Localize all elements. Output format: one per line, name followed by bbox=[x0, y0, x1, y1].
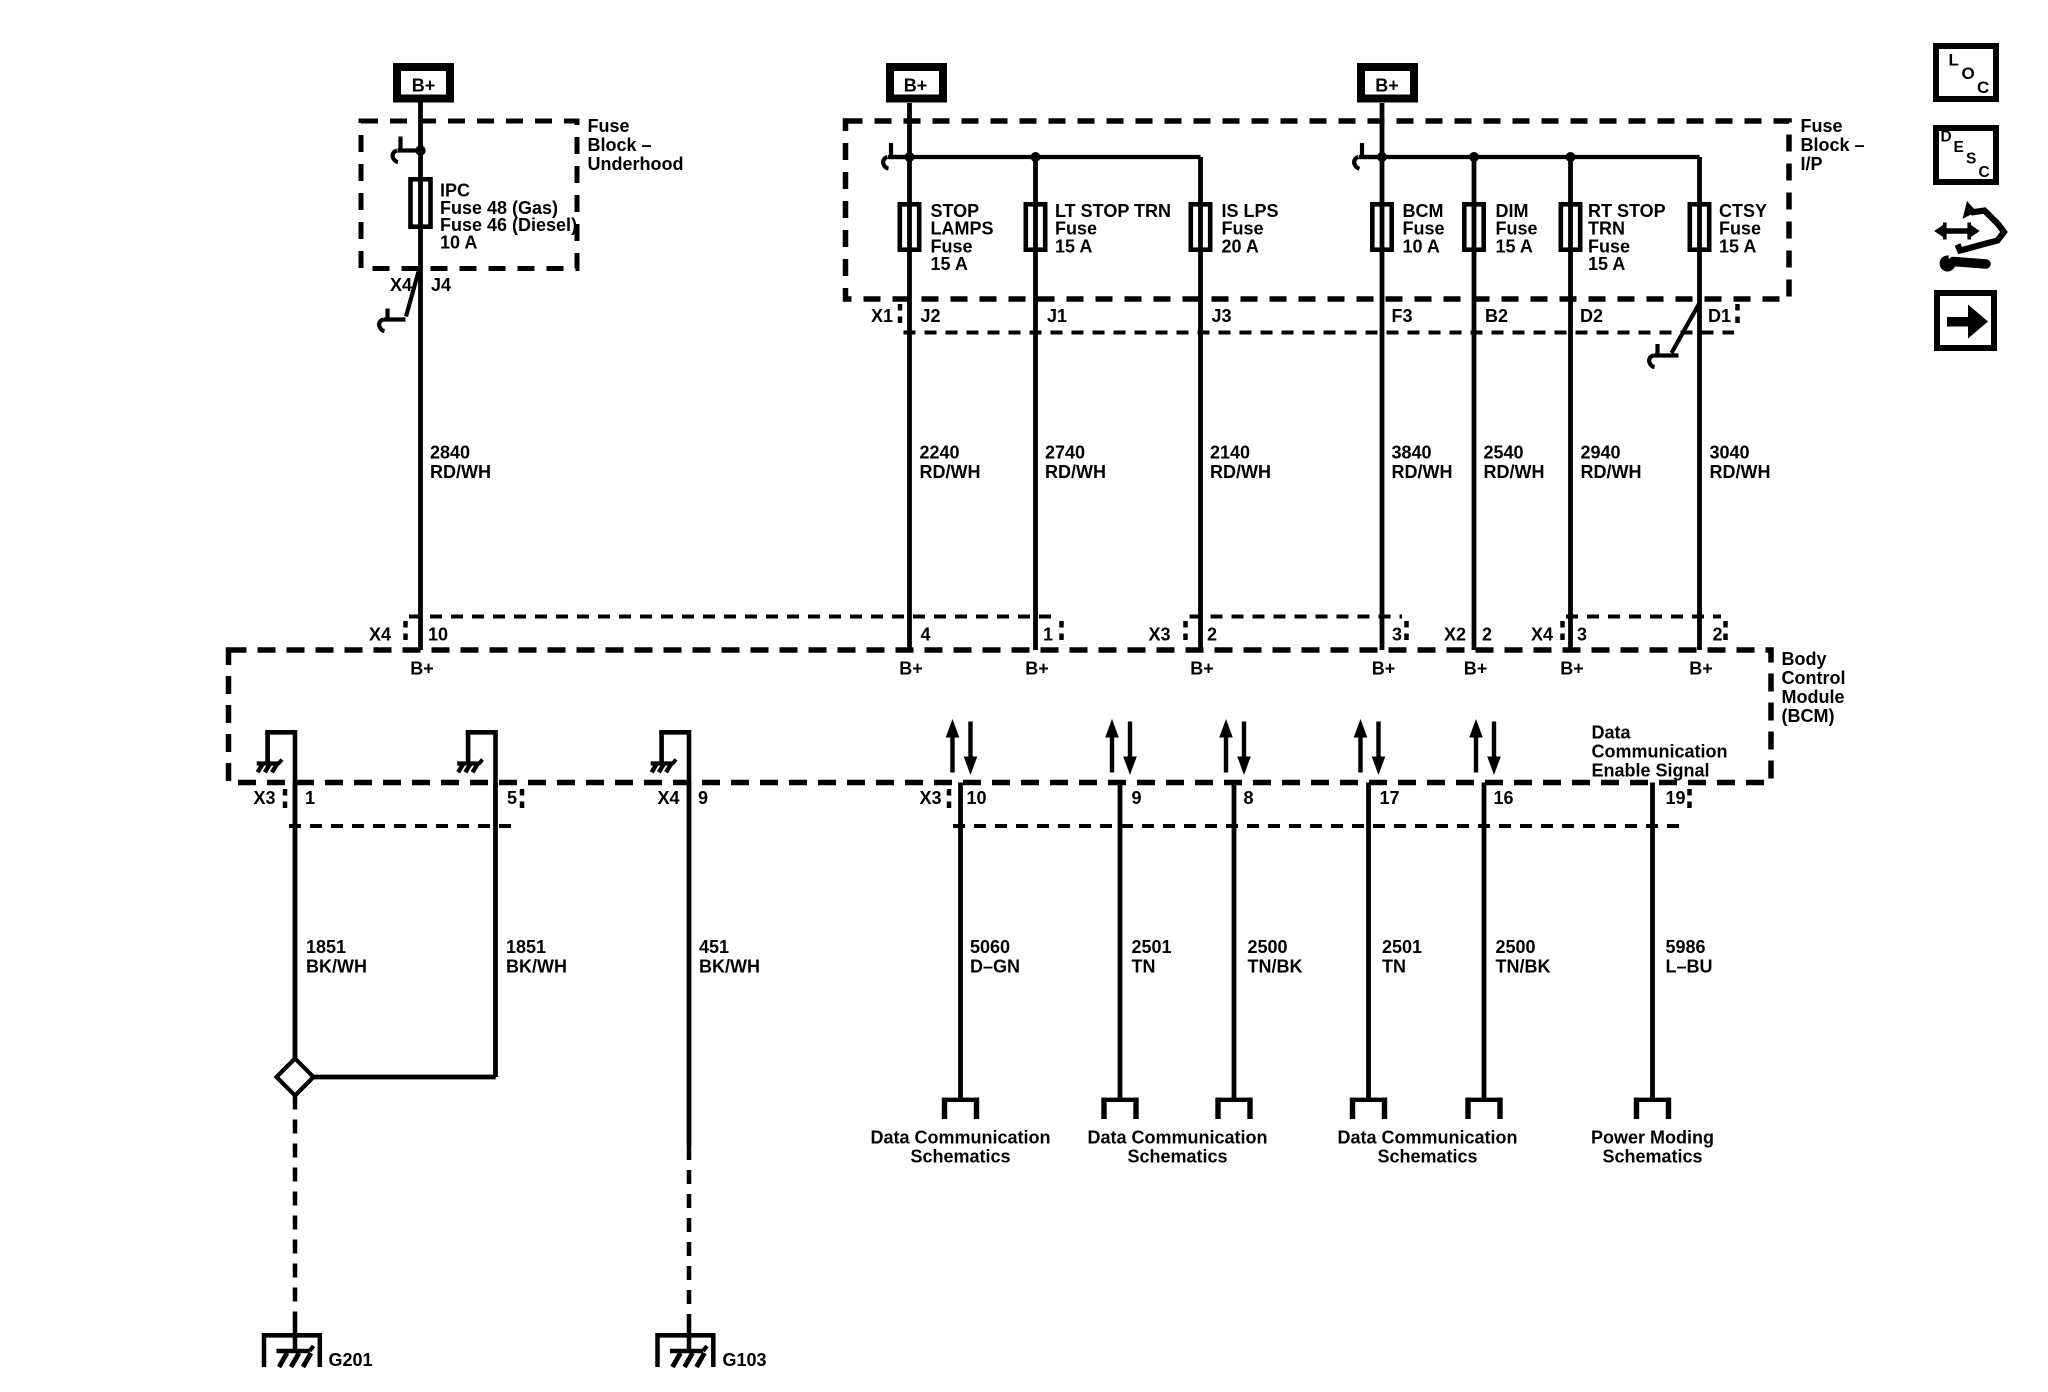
wire 2140 through IS LPS fuse bbox=[1198, 157, 1203, 650]
wire 1851 pin 5 bbox=[493, 783, 498, 1078]
svg-text:X3: X3 bbox=[254, 788, 276, 808]
svg-text:2740: 2740 bbox=[1045, 443, 1085, 463]
svg-text:8: 8 bbox=[1244, 788, 1254, 808]
svg-text:10 A: 10 A bbox=[440, 232, 477, 252]
junction dot at 2240/bus bbox=[905, 152, 915, 162]
wire label 2840 RD/WH bbox=[430, 443, 491, 483]
wire label 2140 RD/WH bbox=[1210, 443, 1271, 483]
svg-text:B+: B+ bbox=[412, 76, 436, 96]
off-page connector for 5986 bbox=[1634, 1098, 1671, 1119]
svg-text:3040: 3040 bbox=[1710, 443, 1750, 463]
dashed ground lead from splice to G201 bbox=[293, 1096, 298, 1325]
svg-text:16: 16 bbox=[1494, 788, 1514, 808]
wire 2240 from B+ through STOP LAMPS fuse bbox=[907, 103, 912, 650]
svg-text:4: 4 bbox=[921, 625, 931, 645]
wire 2500 pin 16 bbox=[1482, 783, 1487, 1099]
svg-text:2501: 2501 bbox=[1382, 937, 1422, 957]
svg-text:Body: Body bbox=[1782, 649, 1827, 669]
svg-text:Data: Data bbox=[1592, 723, 1632, 743]
svg-text:D2: D2 bbox=[1580, 306, 1603, 326]
wire 5986 pin 19 bbox=[1650, 783, 1655, 1099]
junction dot at 2740/bus bbox=[1031, 152, 1041, 162]
svg-text:BK/WH: BK/WH bbox=[506, 957, 567, 977]
svg-text:RD/WH: RD/WH bbox=[1045, 462, 1106, 482]
svg-text:RD/WH: RD/WH bbox=[1484, 462, 1545, 482]
label fuse CTSY bbox=[1719, 201, 1767, 257]
svg-text:J4: J4 bbox=[431, 275, 451, 295]
wire label 5060 D-GN bbox=[970, 937, 1020, 977]
svg-text:10: 10 bbox=[967, 788, 987, 808]
wire label 3040 RD/WH bbox=[1710, 443, 1771, 483]
svg-text:RD/WH: RD/WH bbox=[430, 462, 491, 482]
svg-text:5986: 5986 bbox=[1666, 937, 1706, 957]
wire label 1851 BK/WH left bbox=[306, 937, 367, 977]
label Power Moding Schematics bbox=[1591, 1128, 1714, 1167]
wire label 2740 RD/WH bbox=[1045, 443, 1106, 483]
wire 2840 from B+ through IPC fuse to BCM X4-10 bbox=[418, 102, 423, 650]
wire label 2540 RD/WH bbox=[1484, 443, 1545, 483]
svg-text:2: 2 bbox=[1207, 625, 1217, 645]
svg-text:L: L bbox=[1949, 51, 1959, 70]
svg-text:Fuse: Fuse bbox=[588, 116, 630, 136]
power symbol B+ feed 2 (I/P left) bbox=[890, 67, 943, 99]
svg-text:B+: B+ bbox=[1025, 659, 1049, 679]
svg-text:20 A: 20 A bbox=[1222, 236, 1259, 256]
svg-text:15 A: 15 A bbox=[1588, 254, 1625, 274]
label Data Communication Schematics 1 bbox=[870, 1128, 1050, 1167]
svg-text:Block –: Block – bbox=[1801, 135, 1865, 155]
svg-text:D1: D1 bbox=[1708, 306, 1731, 326]
svg-text:RD/WH: RD/WH bbox=[920, 462, 981, 482]
wire 2540 through DIM fuse bbox=[1472, 157, 1477, 650]
svg-text:Power Moding: Power Moding bbox=[1591, 1128, 1714, 1148]
svg-text:TN: TN bbox=[1132, 957, 1156, 977]
svg-text:1851: 1851 bbox=[506, 937, 546, 957]
svg-text:19: 19 bbox=[1666, 788, 1686, 808]
svg-text:Schematics: Schematics bbox=[1377, 1147, 1477, 1167]
svg-text:3: 3 bbox=[1577, 625, 1587, 645]
svg-text:TN/BK: TN/BK bbox=[1496, 957, 1551, 977]
svg-text:RD/WH: RD/WH bbox=[1392, 462, 1453, 482]
BCM top connector X4 strip dashed line bbox=[409, 615, 1057, 619]
label fuse IPC bbox=[440, 181, 577, 253]
wire 451 pin X4-9 bbox=[687, 783, 692, 1147]
svg-text:2501: 2501 bbox=[1132, 937, 1172, 957]
data signal direction arrows pair 3 bbox=[1219, 719, 1251, 775]
svg-text:C: C bbox=[1979, 164, 1990, 181]
connector X4/J4 clip symbol bbox=[406, 272, 419, 317]
BCM bottom connector bracket mark x=949 bbox=[947, 789, 952, 813]
svg-text:D: D bbox=[1941, 129, 1952, 146]
BCM bottom connector bracket mark x=522 bbox=[520, 789, 525, 813]
label Fuse Block Underhood bbox=[588, 116, 684, 174]
off-page connector for 2501 pin 9 bbox=[1102, 1098, 1139, 1119]
svg-text:15 A: 15 A bbox=[1055, 236, 1092, 256]
wire 3040 through CTSY fuse bbox=[1697, 157, 1702, 650]
fuse IPC 10A (underhood) bbox=[411, 179, 431, 226]
label Data Communication Schematics 3 bbox=[1337, 1128, 1517, 1167]
off-page connector for 2500 pin 8 bbox=[1216, 1098, 1253, 1119]
svg-text:2540: 2540 bbox=[1484, 443, 1524, 463]
power symbol B+ feed 1 (underhood) bbox=[397, 67, 450, 99]
label fuse STOP LAMPS bbox=[931, 201, 994, 274]
wire label 3840 RD/WH bbox=[1392, 443, 1453, 483]
svg-text:B+: B+ bbox=[1689, 659, 1713, 679]
svg-text:B+: B+ bbox=[1375, 76, 1399, 96]
svg-text:X4: X4 bbox=[390, 275, 412, 295]
svg-text:2500: 2500 bbox=[1248, 937, 1288, 957]
BCM internal ground symbol 3 bbox=[651, 730, 690, 784]
label fuse BCM bbox=[1403, 201, 1445, 257]
data signal direction arrows pair 1 bbox=[946, 719, 978, 775]
data signal direction arrows pair 4 bbox=[1354, 719, 1386, 775]
wire 2940 through RT STOP TRN fuse bbox=[1568, 157, 1573, 650]
svg-text:Communication: Communication bbox=[1592, 742, 1728, 762]
svg-text:2240: 2240 bbox=[920, 443, 960, 463]
svg-text:C: C bbox=[1977, 78, 1989, 97]
svg-text:Module: Module bbox=[1782, 687, 1845, 707]
label fuse DIM bbox=[1496, 201, 1538, 257]
wire label 1851 BK/WH right bbox=[506, 937, 567, 977]
fuse DIM 15A bbox=[1464, 204, 1483, 249]
svg-text:Schematics: Schematics bbox=[910, 1147, 1010, 1167]
svg-text:X1: X1 bbox=[871, 306, 893, 326]
svg-text:Schematics: Schematics bbox=[1602, 1147, 1702, 1167]
dashed ground lead from 451 to G103 bbox=[687, 1146, 692, 1324]
wire 3840 from B+ through BCM fuse bbox=[1380, 103, 1385, 650]
svg-text:B+: B+ bbox=[1464, 659, 1488, 679]
icon forward arrow box bbox=[1937, 293, 1994, 348]
junction dot at 2940/bus bbox=[1566, 152, 1576, 162]
BCM bottom connector X3-right strip dashed line bbox=[953, 824, 1687, 828]
svg-text:3: 3 bbox=[1392, 625, 1402, 645]
fuse RT STOP TRN 15A bbox=[1561, 204, 1580, 249]
svg-text:1: 1 bbox=[305, 788, 315, 808]
svg-text:Data Communication: Data Communication bbox=[870, 1128, 1050, 1148]
svg-text:X2: X2 bbox=[1444, 625, 1466, 645]
svg-text:15 A: 15 A bbox=[1719, 236, 1756, 256]
fuse STOP LAMPS 15A bbox=[900, 204, 919, 249]
svg-text:Schematics: Schematics bbox=[1127, 1147, 1227, 1167]
label fuse IS LPS bbox=[1222, 201, 1279, 257]
wire 1851 pin X3-1 bbox=[293, 783, 298, 1059]
wire label 451 BK/WH bbox=[699, 937, 760, 977]
off-page connector for 5060 bbox=[942, 1098, 979, 1119]
svg-text:15 A: 15 A bbox=[1496, 236, 1533, 256]
label Data Communication Schematics 2 bbox=[1087, 1128, 1267, 1167]
bus wire in I/P fuse block left group bbox=[889, 155, 1201, 159]
svg-text:RD/WH: RD/WH bbox=[1710, 462, 1771, 482]
BCM top connector bracket mark x=1185.5 bbox=[1183, 621, 1188, 645]
splice diamond S-point bbox=[277, 1059, 314, 1096]
ground G201 bbox=[262, 1333, 322, 1367]
svg-text:2140: 2140 bbox=[1210, 443, 1250, 463]
wire label 5986 L-BU bbox=[1666, 937, 1713, 977]
svg-text:5: 5 bbox=[507, 788, 517, 808]
svg-text:TN: TN bbox=[1382, 957, 1406, 977]
svg-text:X3: X3 bbox=[920, 788, 942, 808]
svg-text:2940: 2940 bbox=[1581, 443, 1621, 463]
svg-text:B+: B+ bbox=[1372, 659, 1396, 679]
svg-text:2: 2 bbox=[1482, 625, 1492, 645]
wire 1851 jumper to splice bbox=[314, 1075, 496, 1080]
label Body Control Module (BCM) bbox=[1782, 649, 1846, 726]
svg-text:G103: G103 bbox=[723, 1350, 767, 1370]
svg-text:10 A: 10 A bbox=[1403, 236, 1440, 256]
label Data Communication Enable Signal bbox=[1592, 723, 1728, 781]
svg-text:B2: B2 bbox=[1485, 306, 1508, 326]
svg-text:J1: J1 bbox=[1047, 306, 1067, 326]
connector D1 end bracket mark bbox=[1735, 304, 1740, 328]
svg-text:J3: J3 bbox=[1212, 306, 1232, 326]
BCM top connector bracket mark x=1725.5 bbox=[1723, 621, 1728, 645]
svg-text:Enable Signal: Enable Signal bbox=[1592, 761, 1710, 781]
off-page connector for 2500 pin 16 bbox=[1466, 1098, 1503, 1119]
wire label 2240 RD/WH bbox=[920, 443, 981, 483]
data signal direction arrows pair 5 bbox=[1469, 719, 1501, 775]
fuse LT STOP TRN 15A bbox=[1026, 204, 1045, 249]
svg-text:X4: X4 bbox=[369, 625, 391, 645]
svg-text:TN/BK: TN/BK bbox=[1248, 957, 1303, 977]
svg-text:Block –: Block – bbox=[588, 135, 652, 155]
wire 2501 pin 17 bbox=[1366, 783, 1371, 1099]
svg-text:B+: B+ bbox=[899, 659, 923, 679]
BCM top connector bracket mark x=1562.5 bbox=[1560, 621, 1565, 645]
wire label 2501 TN left bbox=[1132, 937, 1172, 977]
label Fuse Block I/P bbox=[1801, 116, 1865, 174]
ground G103 bbox=[656, 1333, 716, 1367]
clip terminal at left of I/P bus 2 bbox=[1359, 155, 1382, 159]
svg-text:E: E bbox=[1954, 139, 1964, 156]
svg-text:3840: 3840 bbox=[1392, 443, 1432, 463]
bus wire in I/P fuse block right group bbox=[1360, 155, 1700, 159]
fuse IS LPS 20A bbox=[1191, 204, 1210, 249]
BCM top connector X3 strip dashed line bbox=[1190, 615, 1403, 619]
power symbol B+ feed 3 (I/P right) bbox=[1361, 67, 1414, 99]
wire label 2940 RD/WH bbox=[1581, 443, 1642, 483]
BCM top connector bracket mark x=1061.5 bbox=[1059, 621, 1064, 645]
fuse CTSY 15A bbox=[1690, 204, 1709, 249]
wire label 2501 TN right bbox=[1382, 937, 1422, 977]
svg-text:B+: B+ bbox=[1190, 659, 1214, 679]
junction dot at 3840/bus bbox=[1377, 152, 1387, 162]
BCM top connector bracket mark x=1406.5 bbox=[1404, 621, 1409, 645]
BCM bottom connector X3-left strip dashed line bbox=[289, 824, 518, 828]
BCM top connector bracket mark x=405.5 bbox=[403, 621, 408, 645]
fuse BCM 10A bbox=[1372, 204, 1391, 249]
clip terminal in underhood fuse block bbox=[398, 148, 421, 152]
off-page connector for 2501 pin 17 bbox=[1350, 1098, 1387, 1119]
svg-text:5060: 5060 bbox=[970, 937, 1010, 957]
svg-text:BK/WH: BK/WH bbox=[699, 957, 760, 977]
svg-text:RD/WH: RD/WH bbox=[1210, 462, 1271, 482]
svg-text:B+: B+ bbox=[410, 659, 434, 679]
svg-text:D–GN: D–GN bbox=[970, 957, 1020, 977]
junction dot at 2540/bus bbox=[1469, 152, 1479, 162]
wire 2501 pin 9 bbox=[1118, 783, 1123, 1099]
svg-text:B+: B+ bbox=[1560, 659, 1584, 679]
svg-text:X4: X4 bbox=[1531, 625, 1553, 645]
label fuse LT STOP TRN bbox=[1055, 201, 1171, 257]
icon LOC box bbox=[1936, 46, 1996, 99]
svg-text:2840: 2840 bbox=[430, 443, 470, 463]
svg-text:S: S bbox=[1966, 151, 1976, 168]
wire 5060 pin X3-10 bbox=[958, 783, 963, 1099]
connector X1 bracket mark bbox=[898, 304, 903, 328]
svg-text:451: 451 bbox=[699, 937, 729, 957]
fuse block underhood dashed box bbox=[361, 121, 577, 269]
svg-text:9: 9 bbox=[698, 788, 708, 808]
svg-text:17: 17 bbox=[1380, 788, 1400, 808]
icon harness routing arrow with wrench bbox=[1934, 201, 2004, 272]
svg-text:J2: J2 bbox=[921, 306, 941, 326]
svg-text:15 A: 15 A bbox=[931, 254, 968, 274]
svg-text:9: 9 bbox=[1132, 788, 1142, 808]
svg-text:1851: 1851 bbox=[306, 937, 346, 957]
wire label 2500 TN/BK right bbox=[1496, 937, 1551, 977]
svg-text:1: 1 bbox=[1043, 625, 1053, 645]
svg-text:Underhood: Underhood bbox=[588, 154, 684, 174]
wire label 2500 TN/BK left bbox=[1248, 937, 1303, 977]
svg-text:B+: B+ bbox=[904, 76, 928, 96]
svg-text:Control: Control bbox=[1782, 668, 1846, 688]
svg-text:(BCM): (BCM) bbox=[1782, 706, 1835, 726]
svg-text:2500: 2500 bbox=[1496, 937, 1536, 957]
icon DESC box bbox=[1936, 128, 1996, 182]
junction blob at IPC feed bbox=[415, 145, 425, 155]
svg-text:L–BU: L–BU bbox=[1666, 957, 1713, 977]
svg-text:2: 2 bbox=[1713, 625, 1723, 645]
svg-text:Fuse: Fuse bbox=[1801, 116, 1843, 136]
BCM bottom connector bracket mark x=1689.5 bbox=[1687, 789, 1692, 813]
svg-text:Data Communication: Data Communication bbox=[1337, 1128, 1517, 1148]
connector X1 strip dashed line bbox=[904, 331, 1735, 335]
svg-text:I/P: I/P bbox=[1801, 154, 1823, 174]
svg-text:F3: F3 bbox=[1392, 306, 1413, 326]
svg-text:X4: X4 bbox=[658, 788, 680, 808]
BCM bottom connector bracket mark x=285 bbox=[283, 789, 288, 813]
fuse block I/P dashed box bbox=[846, 121, 1790, 299]
wire 2500 pin 8 bbox=[1232, 783, 1237, 1099]
svg-text:RD/WH: RD/WH bbox=[1581, 462, 1642, 482]
connector D1 clip symbol bbox=[1672, 303, 1700, 353]
BCM internal ground symbol 2 bbox=[457, 730, 496, 784]
wire 2740 through LT STOP TRN fuse bbox=[1033, 157, 1038, 650]
clip terminal at left of I/P bus 1 bbox=[888, 155, 910, 159]
label fuse RT STOP TRN bbox=[1588, 201, 1666, 274]
BCM internal ground symbol 1 bbox=[257, 730, 296, 784]
Body Control Module dashed box bbox=[229, 650, 1772, 783]
svg-text:BK/WH: BK/WH bbox=[306, 957, 367, 977]
svg-text:X3: X3 bbox=[1149, 625, 1171, 645]
svg-text:Data Communication: Data Communication bbox=[1087, 1128, 1267, 1148]
svg-text:G201: G201 bbox=[329, 1350, 373, 1370]
svg-text:10: 10 bbox=[428, 625, 448, 645]
BCM top connector X4b strip dashed line bbox=[1566, 615, 1721, 619]
data signal direction arrows pair 2 bbox=[1105, 719, 1137, 775]
svg-text:O: O bbox=[1962, 64, 1975, 83]
